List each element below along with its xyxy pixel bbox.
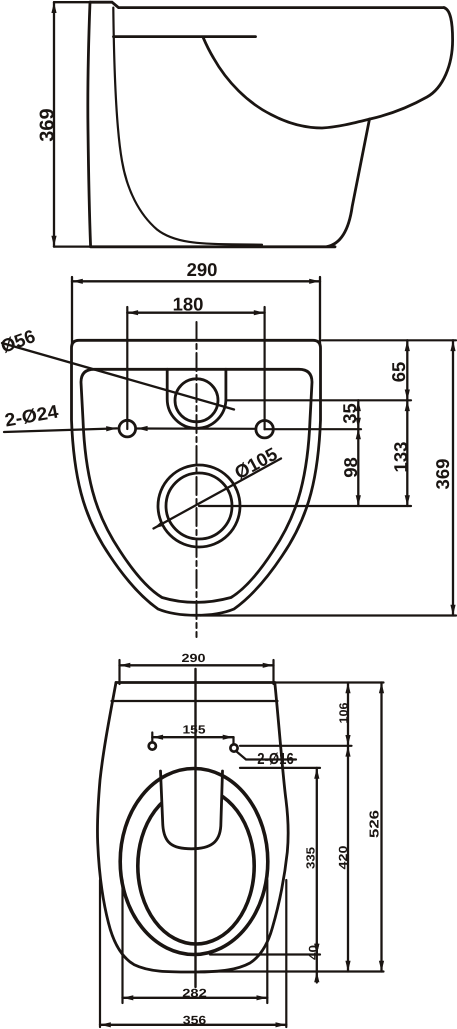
ext 290 plan right: [272, 660, 274, 684]
ext seat top plan: [240, 767, 320, 769]
dim 282: [123, 997, 268, 999]
svg-text:2-Ø16: 2-Ø16: [257, 751, 294, 768]
label O105: [231, 443, 281, 483]
leader 2-O16: [237, 752, 297, 760]
right hole elbow line: [265, 428, 361, 430]
svg-text:2-Ø24: 2-Ø24: [3, 400, 61, 430]
extension 180 right: [264, 307, 266, 429]
outlet hole outer: [158, 465, 240, 547]
leader 2-O24: [4, 428, 117, 432]
dim 356: [100, 1024, 286, 1026]
svg-text:369: 369: [432, 459, 453, 490]
hinge hole left: [149, 742, 156, 749]
dim 133: [406, 400, 408, 506]
svg-text:369: 369: [37, 108, 59, 141]
dim 369 extension top: [54, 1, 92, 3]
ext 356 right: [285, 880, 287, 1027]
extension bottom right: [200, 614, 456, 616]
label 420: [336, 845, 350, 870]
leader O56: [2, 343, 234, 410]
label 335: [304, 847, 318, 869]
dim line 369 side: [53, 2, 55, 246]
plan outline: [97, 683, 288, 973]
svg-text:420: 420: [336, 845, 350, 870]
bowl outline: [203, 8, 452, 128]
hinge hole right tick: [232, 737, 234, 744]
seat top line: [114, 35, 256, 38]
svg-text:106: 106: [337, 702, 351, 723]
label 369 side: [37, 108, 59, 141]
dim 526: [380, 683, 382, 972]
label 35: [339, 403, 360, 424]
hinge hole left tick: [151, 733, 153, 742]
leader O105: [154, 459, 282, 529]
label 98: [340, 457, 361, 478]
ext 290 plan left: [118, 660, 120, 684]
svg-text:526: 526: [367, 810, 382, 838]
svg-text:335: 335: [304, 847, 318, 869]
ext seat bottom plan: [210, 953, 320, 955]
svg-text:65: 65: [388, 362, 409, 383]
svg-text:98: 98: [340, 457, 361, 478]
ext hinge right plan: [240, 745, 352, 747]
label 369 middle: [432, 459, 453, 490]
vertical centerline middle view: [196, 322, 198, 637]
flush hole center line: [226, 399, 411, 401]
label 526: [367, 810, 382, 838]
plan centerline: [194, 669, 196, 987]
dim 369 middle: [452, 340, 454, 615]
extension 290 right: [319, 277, 321, 346]
dim line 180: [127, 312, 264, 314]
label 106: [337, 702, 351, 723]
dim 40 arrows: [316, 943, 318, 955]
toilet back edge: [88, 2, 91, 246]
hinge hole right: [230, 744, 237, 751]
svg-text:180: 180: [173, 293, 204, 314]
flush hole circle: [175, 379, 218, 422]
cover fill: [161, 771, 223, 849]
dim 155: [152, 736, 233, 738]
extension 290 left: [71, 277, 73, 346]
plan step line: [112, 700, 278, 702]
holes center line: [137, 427, 256, 429]
svg-text:40: 40: [306, 945, 320, 960]
label 40: [306, 945, 320, 960]
fixing hole left: [119, 420, 136, 437]
ext 282 left: [121, 880, 123, 1003]
svg-text:133: 133: [390, 442, 411, 473]
ext 282 right: [266, 880, 268, 1003]
svg-text:356: 356: [183, 1013, 207, 1027]
dim 65: [406, 340, 408, 400]
label 65: [388, 362, 409, 383]
outlet center line: [199, 505, 411, 507]
bowl leg: [327, 119, 370, 247]
bottom edge: [91, 245, 335, 248]
svg-text:282: 282: [182, 986, 207, 1000]
toilet top edge: [90, 2, 444, 7]
ext 356 left: [99, 880, 101, 1027]
outlet hole inner: [166, 473, 232, 539]
label 133: [390, 442, 411, 473]
inner back profile: [113, 8, 262, 245]
seat outer oval: [120, 769, 268, 955]
dim 98: [357, 429, 359, 507]
svg-text:35: 35: [339, 403, 360, 424]
ext top right plan: [275, 681, 384, 683]
dim 106: [347, 683, 349, 746]
svg-text:290: 290: [182, 651, 207, 665]
dim line 290 plan: [120, 664, 274, 666]
extension 180 left: [126, 307, 128, 429]
flush pocket U: [167, 369, 226, 428]
tank outer outline: [72, 340, 321, 615]
label 2-O24: [3, 400, 61, 430]
cover outline: [161, 771, 223, 849]
dim 420: [347, 746, 349, 972]
seat inner oval: [138, 788, 254, 944]
svg-text:155: 155: [183, 723, 207, 737]
plan top edge: [116, 681, 275, 684]
tank inner outline: [81, 369, 312, 602]
dim line 290: [72, 280, 320, 282]
extension top right: [322, 339, 456, 341]
svg-text:Ø105: Ø105: [231, 443, 281, 483]
dim 35: [357, 400, 359, 428]
fixing hole right: [256, 421, 273, 438]
dim 369 extension bottom: [54, 245, 92, 247]
svg-text:290: 290: [187, 259, 218, 280]
ext front plan: [200, 970, 384, 972]
label O56: [0, 325, 38, 357]
dim 335: [316, 768, 318, 955]
